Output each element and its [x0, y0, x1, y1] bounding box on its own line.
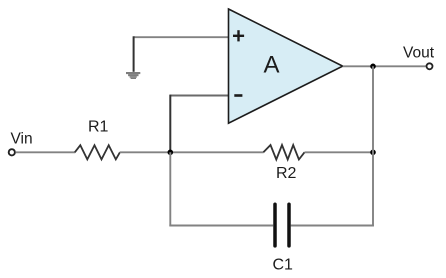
node: output junction — [370, 64, 376, 70]
resistor R1 — [75, 145, 120, 159]
wire: Vin to R1 — [16, 151, 75, 153]
svg-text:R2: R2 — [276, 165, 297, 182]
svg-text:A: A — [263, 51, 279, 78]
wire: left vertical below node — [169, 152, 171, 226]
svg-text:R1: R1 — [88, 119, 109, 136]
node: inverting input junction — [168, 150, 174, 156]
svg-text:Vin: Vin — [11, 131, 33, 148]
wire: bottom left to C1 — [169, 225, 273, 227]
wire: opamp output — [343, 65, 426, 67]
wire: +input to ground branch — [134, 36, 229, 38]
wire: R2 to right vertical — [305, 151, 374, 153]
svg-text:C1: C1 — [273, 257, 294, 274]
op-amp U1 — [229, 9, 343, 123]
terminal Vout — [427, 63, 433, 69]
capacitor C1 — [275, 204, 289, 246]
resistor R2 — [263, 145, 304, 160]
wire: R1 to R2 through node — [120, 151, 264, 153]
svg-text:Vout: Vout — [403, 45, 435, 62]
wire: right vertical — [372, 66, 374, 226]
node: output right junction — [370, 150, 376, 156]
op-amp minus pin mark — [234, 94, 242, 97]
wire: -input horizontal — [170, 95, 228, 97]
wire: ground vertical — [133, 36, 135, 72]
terminal Vin — [9, 149, 15, 155]
op-amp plus pin mark — [233, 30, 244, 41]
ground — [126, 72, 140, 79]
wire: C1 to bottom right — [291, 225, 374, 227]
wire: -input vertical to node — [169, 95, 171, 153]
